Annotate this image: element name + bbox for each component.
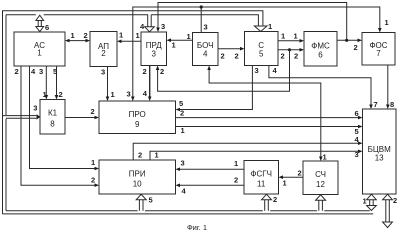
svg-text:1: 1 bbox=[268, 22, 272, 31]
svg-text:ПРИ: ПРИ bbox=[129, 170, 146, 179]
bus bottom outer line bbox=[3, 213, 374, 215]
wire АП pin3 to ПРО pin1 bbox=[101, 67, 115, 102]
block ПРИ 10 bbox=[99, 160, 176, 194]
bus hollow arrow into СЧ bottom bbox=[316, 195, 326, 211]
block ФОС 7 bbox=[362, 33, 395, 66]
wire С pin1 to ФМС pin1 bbox=[278, 32, 304, 43]
svg-text:3: 3 bbox=[161, 22, 165, 31]
bus outer line (left + top) bbox=[3, 11, 263, 214]
svg-text:2: 2 bbox=[84, 31, 88, 40]
block К1 8 bbox=[40, 100, 65, 135]
svg-text:6: 6 bbox=[318, 51, 323, 60]
wire АС pin2 to ПРИ pin2 bbox=[15, 66, 100, 187]
svg-text:8: 8 bbox=[50, 120, 55, 129]
svg-text:БЦВМ: БЦВМ bbox=[368, 145, 392, 154]
wire ПРД-АП bbox=[117, 31, 141, 44]
wire БОЧ bottom - СЧ pin1 bbox=[207, 66, 326, 162]
bus hollow arrow into ФСПЧ pin2 bbox=[262, 194, 278, 211]
wire ПРО pin2 to БЦВМ pin6 bbox=[176, 109, 363, 120]
wire К1 to ПРО pin2 bbox=[65, 107, 99, 119]
svg-text:5: 5 bbox=[53, 67, 57, 76]
block ФСПЧ 11 bbox=[244, 161, 279, 195]
svg-text:2: 2 bbox=[235, 51, 239, 60]
block ПРО 9 bbox=[99, 101, 176, 134]
svg-text:СЧ: СЧ bbox=[315, 170, 326, 179]
svg-text:5: 5 bbox=[149, 196, 153, 205]
svg-text:1: 1 bbox=[385, 18, 389, 27]
svg-text:3: 3 bbox=[101, 67, 105, 76]
svg-text:ФСГЧ: ФСГЧ bbox=[250, 170, 272, 179]
svg-text:2: 2 bbox=[393, 196, 397, 205]
block БЦВМ 13 bbox=[363, 109, 397, 194]
svg-text:3: 3 bbox=[151, 49, 156, 58]
svg-text:2: 2 bbox=[294, 52, 298, 61]
wire АС-АП bidirectional bbox=[65, 31, 90, 42]
БЦВМ right hollow double arrow (pin 2) bbox=[383, 194, 398, 227]
svg-text:2: 2 bbox=[91, 107, 95, 116]
svg-text:1: 1 bbox=[187, 32, 191, 41]
svg-text:10: 10 bbox=[133, 180, 142, 189]
svg-text:11: 11 bbox=[257, 180, 266, 189]
svg-text:1: 1 bbox=[155, 151, 159, 160]
wire С pin2 to ПРД pin2 (bottom) bbox=[156, 48, 291, 91]
svg-text:1: 1 bbox=[323, 153, 327, 162]
block ПРД 3 bbox=[141, 32, 167, 66]
svg-text:3: 3 bbox=[204, 23, 208, 32]
wire ПРИ out1 to БЦВМ pin3 bbox=[150, 150, 363, 161]
wire БОЧ-ПРД bbox=[167, 32, 193, 50]
svg-text:5: 5 bbox=[179, 99, 183, 108]
svg-text:2: 2 bbox=[234, 176, 238, 185]
svg-text:Фиг. 1: Фиг. 1 bbox=[187, 223, 207, 232]
bus branch to К1 pin3 bbox=[3, 116, 37, 119]
svg-text:8: 8 bbox=[390, 100, 394, 109]
svg-text:7: 7 bbox=[376, 49, 381, 58]
svg-text:3: 3 bbox=[39, 67, 43, 76]
wire АС pin3 to К1 pin1 bbox=[39, 66, 48, 100]
svg-text:2: 2 bbox=[180, 109, 184, 118]
block С 5 bbox=[245, 32, 279, 66]
svg-text:1: 1 bbox=[136, 31, 140, 40]
БЦВМ left hollow double arrow (pin 1) bbox=[363, 194, 377, 210]
bus hollow arrow into ПРИ pin5 bbox=[136, 194, 152, 210]
svg-text:2: 2 bbox=[15, 67, 19, 76]
wire ФМС feedback to ПРД pin3 bbox=[156, 3, 347, 41]
svg-text:2: 2 bbox=[143, 67, 147, 76]
wire ПРО pin1 to БЦВМ pin5 bbox=[176, 125, 363, 136]
svg-text:2: 2 bbox=[160, 67, 164, 76]
svg-text:1: 1 bbox=[294, 32, 298, 41]
svg-text:6: 6 bbox=[355, 109, 359, 118]
svg-text:1: 1 bbox=[37, 49, 42, 58]
bus hollow arrowhead into С pin1 bbox=[254, 26, 267, 32]
svg-text:2: 2 bbox=[91, 175, 95, 184]
svg-text:2: 2 bbox=[221, 51, 225, 60]
svg-text:2: 2 bbox=[59, 90, 63, 99]
wire ФМС to ФОС pin2 bbox=[337, 39, 362, 53]
svg-text:13: 13 bbox=[375, 154, 384, 163]
svg-text:1: 1 bbox=[281, 32, 285, 41]
svg-text:1: 1 bbox=[71, 31, 75, 40]
svg-text:ФМС: ФМС bbox=[311, 42, 330, 51]
wire АС pin5 to К1 pin2 bbox=[53, 66, 63, 100]
wire ПРД pin2 to ПРО pin4 bbox=[143, 66, 152, 102]
wire С pin3 to ПРО pin5 bbox=[176, 66, 259, 112]
svg-text:1: 1 bbox=[283, 179, 287, 188]
wire С pin4 to БЦВМ pin7 bbox=[269, 66, 378, 110]
bus bottom top line segments bbox=[6, 210, 370, 212]
svg-text:2: 2 bbox=[354, 43, 358, 52]
svg-text:2: 2 bbox=[281, 52, 285, 61]
block СЧ 12 bbox=[303, 161, 338, 195]
svg-text:3: 3 bbox=[181, 159, 185, 168]
bus inner top line segments (broken at АС arrow and ПРД branch) bbox=[6, 15, 258, 27]
svg-text:2: 2 bbox=[101, 49, 106, 58]
bus inner line left side (broken at К1 branch) bbox=[5, 15, 7, 211]
svg-text:1: 1 bbox=[91, 158, 95, 167]
wire ПРИ out2 to БЦВМ pin4 bbox=[133, 135, 362, 160]
svg-text:4: 4 bbox=[203, 49, 208, 58]
wire БОЧ to С pin2 left bbox=[218, 47, 245, 60]
svg-text:1: 1 bbox=[172, 41, 176, 50]
wire С pin2 to ФМС pin2 bbox=[278, 48, 304, 61]
svg-text:12: 12 bbox=[316, 180, 325, 189]
wire БОЧ pin3 out (to ПРО pin3 and ФОС pin1) bbox=[127, 5, 389, 101]
wire ФОС bottom to БЦВМ pin8 bbox=[386, 65, 394, 109]
svg-text:2: 2 bbox=[273, 195, 277, 204]
svg-text:7: 7 bbox=[374, 100, 378, 109]
wire ФСПЧ out1 to ПРИ pin3 bbox=[176, 159, 245, 172]
bus hollow arrowhead into ПРД pin4 bbox=[145, 27, 155, 32]
svg-text:1: 1 bbox=[119, 31, 123, 40]
svg-text:5: 5 bbox=[259, 49, 264, 58]
svg-text:К1: К1 bbox=[48, 109, 58, 118]
svg-text:1: 1 bbox=[181, 126, 185, 135]
svg-text:1: 1 bbox=[111, 90, 115, 99]
svg-text:1: 1 bbox=[234, 159, 238, 168]
wire АС pin4 to ПРИ pin1 bbox=[30, 66, 100, 170]
block АС 1 bbox=[14, 32, 65, 66]
wire СЧ out2 to ФСПЧ pin1 bbox=[279, 169, 304, 188]
svg-text:3: 3 bbox=[127, 90, 131, 99]
svg-text:3: 3 bbox=[33, 104, 37, 113]
svg-text:2: 2 bbox=[138, 151, 142, 160]
wire ФСПЧ out2 to ПРИ pin4 bbox=[176, 176, 245, 196]
svg-text:6: 6 bbox=[45, 23, 49, 32]
svg-text:3: 3 bbox=[355, 150, 359, 159]
block ФМС 6 bbox=[304, 32, 337, 67]
svg-text:ПРО: ПРО bbox=[129, 110, 146, 119]
svg-text:9: 9 bbox=[135, 120, 140, 129]
svg-text:2: 2 bbox=[298, 169, 302, 178]
block АП 2 bbox=[90, 32, 117, 67]
svg-text:1: 1 bbox=[363, 196, 367, 205]
svg-text:3: 3 bbox=[255, 66, 259, 75]
АС pin6 double-headed hollow arrow bbox=[38, 21, 41, 27]
block БОЧ 4 bbox=[193, 33, 219, 66]
svg-text:1: 1 bbox=[43, 90, 47, 99]
